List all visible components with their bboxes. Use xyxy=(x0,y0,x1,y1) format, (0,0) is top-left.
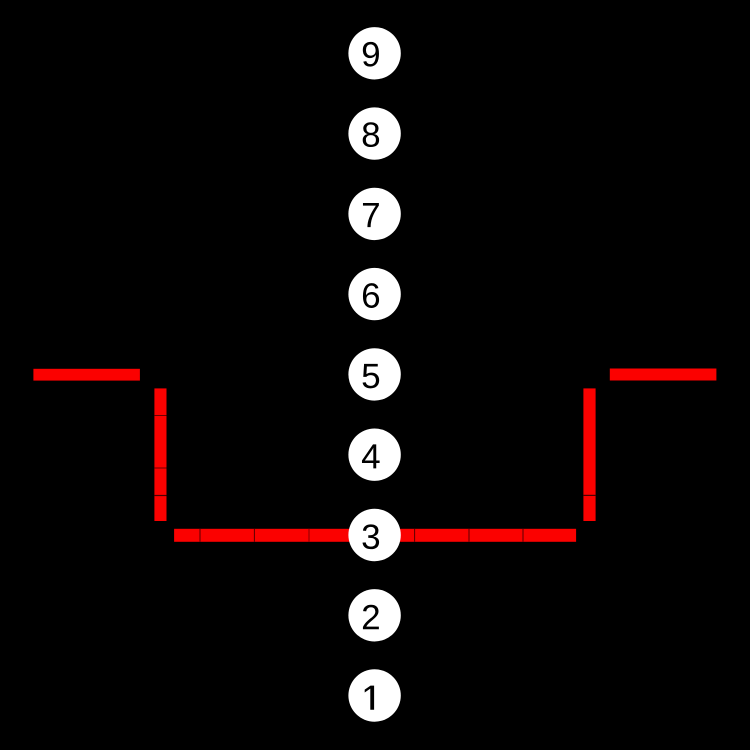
wire: left upper red bar at level 5 xyxy=(33,369,139,381)
node 7 xyxy=(348,188,400,240)
node 3 xyxy=(348,509,400,561)
wire: left vertical red bar xyxy=(154,388,166,521)
wire: right vertical red bar xyxy=(583,388,595,521)
node 9 xyxy=(348,27,400,79)
node 6 xyxy=(348,268,400,320)
wire: right upper red bar at level 5 xyxy=(610,369,717,381)
node 8 xyxy=(348,107,400,159)
node 1 xyxy=(348,669,400,721)
node 5 xyxy=(348,348,400,400)
wire: bottom red bar at level 3 xyxy=(174,529,576,542)
node 4 xyxy=(348,429,400,481)
node 2 xyxy=(348,589,400,641)
